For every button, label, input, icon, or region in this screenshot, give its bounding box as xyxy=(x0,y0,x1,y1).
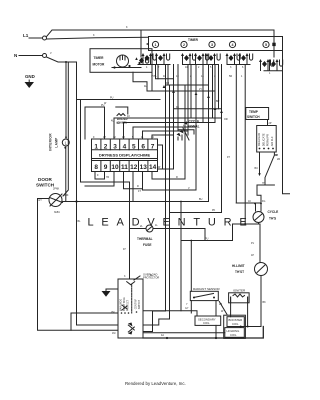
svg-text:HI-LIMIT: HI-LIMIT xyxy=(232,264,245,268)
svg-text:1K: 1K xyxy=(248,200,251,203)
svg-text:(CHIME): (CHIME) xyxy=(117,120,127,124)
svg-text:Rendered by LeadVenture, Inc.: Rendered by LeadVenture, Inc. xyxy=(125,381,186,386)
svg-text:4: 4 xyxy=(123,144,127,151)
svg-text:4C: 4C xyxy=(163,75,166,78)
svg-text:3: 3 xyxy=(211,43,213,47)
svg-text:INTERIOR: INTERIOR xyxy=(49,133,53,151)
svg-text:COIL: COIL xyxy=(203,321,210,325)
svg-text:BU: BU xyxy=(199,198,203,201)
svg-text:BK: BK xyxy=(263,301,267,304)
svg-text:FUSE: FUSE xyxy=(143,243,152,247)
svg-text:CYCLE: CYCLE xyxy=(268,210,279,214)
svg-text:4BK: 4BK xyxy=(64,194,69,197)
svg-text:TIMER: TIMER xyxy=(94,56,105,60)
svg-text:4A: 4A xyxy=(161,334,164,337)
svg-text:MOTOR: MOTOR xyxy=(93,63,106,67)
svg-text:5R: 5R xyxy=(229,75,232,78)
svg-text:TIMER: TIMER xyxy=(188,38,199,42)
svg-text:TEMP: TEMP xyxy=(249,110,259,114)
svg-text:9: 9 xyxy=(104,164,108,171)
svg-text:FG: FG xyxy=(262,200,265,203)
svg-text:BR: BR xyxy=(216,100,220,103)
svg-text:SIGNAL: SIGNAL xyxy=(188,125,200,129)
svg-text:TH'S: TH'S xyxy=(269,217,276,221)
svg-text:2: 2 xyxy=(183,43,185,47)
svg-text:1P: 1P xyxy=(251,254,254,257)
svg-text:2Y: 2Y xyxy=(199,88,202,91)
svg-text:COIL: COIL xyxy=(230,333,237,337)
svg-text:8: 8 xyxy=(94,164,98,171)
svg-text:PU: PU xyxy=(110,97,114,100)
svg-text:14: 14 xyxy=(149,164,157,171)
svg-text:COIL: COIL xyxy=(232,322,239,326)
svg-text:FV: FV xyxy=(251,242,254,245)
svg-text:2P: 2P xyxy=(269,122,272,125)
svg-text:PERM PR: PERM PR xyxy=(266,134,270,146)
svg-text:DRYNESS DISPLAY/CHIME: DRYNESS DISPLAY/CHIME xyxy=(99,153,151,158)
svg-text:1: 1 xyxy=(94,144,98,151)
svg-text:SWITCH: SWITCH xyxy=(36,183,55,188)
svg-text:L1: L1 xyxy=(23,33,29,38)
svg-text:7R: 7R xyxy=(106,176,109,179)
svg-text:BU: BU xyxy=(255,167,259,170)
svg-text:2: 2 xyxy=(104,144,108,151)
svg-text:PROTECT: PROTECT xyxy=(126,299,129,311)
svg-text:RADIANT SENSOR: RADIANT SENSOR xyxy=(193,287,220,291)
svg-text:4: 4 xyxy=(232,43,234,47)
svg-text:6: 6 xyxy=(141,144,145,151)
svg-text:3LBU: 3LBU xyxy=(54,211,60,214)
svg-text:2M: 2M xyxy=(111,311,114,314)
svg-text:CYCLE: CYCLE xyxy=(189,120,200,124)
svg-text:THERMAL: THERMAL xyxy=(137,237,153,241)
svg-text:GND: GND xyxy=(25,74,35,79)
svg-text:LAMP: LAMP xyxy=(54,137,58,148)
svg-text:SWITCH: SWITCH xyxy=(247,115,260,119)
svg-text:PU: PU xyxy=(205,238,209,241)
svg-text:R: R xyxy=(137,185,139,188)
svg-text:REGULAR: REGULAR xyxy=(257,133,261,146)
svg-text:7: 7 xyxy=(151,144,155,151)
svg-text:DELICATE: DELICATE xyxy=(261,133,265,146)
svg-text:1: 1 xyxy=(155,43,157,47)
svg-text:DOOR: DOOR xyxy=(38,177,52,182)
svg-text:10: 10 xyxy=(111,164,119,171)
svg-text:1P: 1P xyxy=(103,136,106,139)
svg-text:3: 3 xyxy=(113,144,117,151)
svg-text:13: 13 xyxy=(140,164,148,171)
svg-text:OR: OR xyxy=(224,118,228,121)
svg-text:7H: 7H xyxy=(262,182,265,185)
svg-text:5: 5 xyxy=(265,43,267,47)
svg-text:PROTECTOR: PROTECTOR xyxy=(143,276,159,280)
svg-text:BUZZER: BUZZER xyxy=(117,117,128,121)
svg-text:AIR FLF: AIR FLF xyxy=(270,136,274,146)
svg-text:PK: PK xyxy=(212,209,216,212)
svg-text:11: 11 xyxy=(121,164,128,171)
svg-text:IGNITER: IGNITER xyxy=(233,289,246,293)
svg-text:LEADVENTURE: LEADVENTURE xyxy=(87,217,254,229)
svg-text:2R: 2R xyxy=(219,303,222,306)
svg-text:12: 12 xyxy=(130,164,138,171)
svg-text:5: 5 xyxy=(132,144,136,151)
svg-text:2R: 2R xyxy=(277,158,280,161)
svg-text:GY: GY xyxy=(185,307,189,310)
svg-text:2PNK: 2PNK xyxy=(53,188,60,191)
svg-text:1M: 1M xyxy=(112,332,115,335)
svg-text:3P: 3P xyxy=(275,154,278,157)
svg-text:SWITCH: SWITCH xyxy=(138,300,141,310)
svg-text:1GY: 1GY xyxy=(37,199,42,202)
svg-text:TH'ST: TH'ST xyxy=(235,270,244,274)
